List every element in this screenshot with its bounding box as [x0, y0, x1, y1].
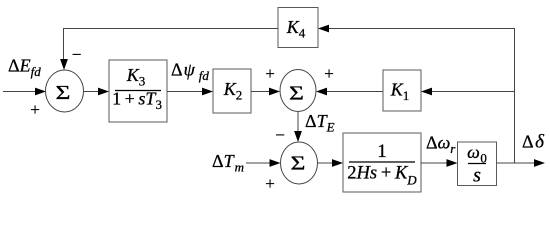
wire K2 to S2 [251, 88, 280, 96]
svg-text:1 + sT3: 1 + sT3 [112, 89, 162, 113]
block K1 [383, 70, 421, 111]
block 1/(2Hs+KD) [343, 133, 421, 192]
svg-text:−: − [275, 126, 285, 145]
wire right vertical to K4 [318, 25, 515, 164]
wire input dEfd [3, 88, 46, 96]
block K3 transfer function [109, 60, 167, 122]
block omega0/s [458, 142, 497, 187]
svg-text:Σ: Σ [289, 82, 304, 105]
wire K4 to S1 feedback [60, 29, 278, 71]
svg-text:+: + [324, 64, 334, 83]
wire K3 to K2 [167, 88, 213, 96]
summing junction S3 [281, 142, 318, 184]
wire S2 down to S3 [294, 112, 302, 143]
svg-text:+: + [30, 100, 40, 119]
block K4 [278, 8, 318, 48]
wire K1 to S2 [316, 88, 383, 96]
wire S1 to K3 [84, 88, 110, 96]
wire S3 to inertia block [318, 159, 344, 167]
svg-text:Σ: Σ [56, 81, 71, 104]
wire dTm input to S3 [246, 159, 281, 167]
svg-text:Σ: Σ [291, 152, 306, 175]
svg-text:+: + [265, 64, 275, 83]
svg-text:+: + [265, 174, 275, 193]
summing junction S2 [280, 70, 316, 112]
wire inertia block to omega0/s [421, 159, 458, 167]
wire output ddelta [497, 159, 546, 167]
wire right vertical to K1 [421, 88, 514, 96]
summing junction S1 [46, 70, 84, 112]
svg-text:Δδ: Δδ [522, 132, 545, 153]
svg-text:s: s [473, 165, 481, 187]
block K2 [213, 69, 251, 113]
svg-text:−: − [72, 45, 82, 64]
svg-text:1: 1 [377, 141, 387, 162]
